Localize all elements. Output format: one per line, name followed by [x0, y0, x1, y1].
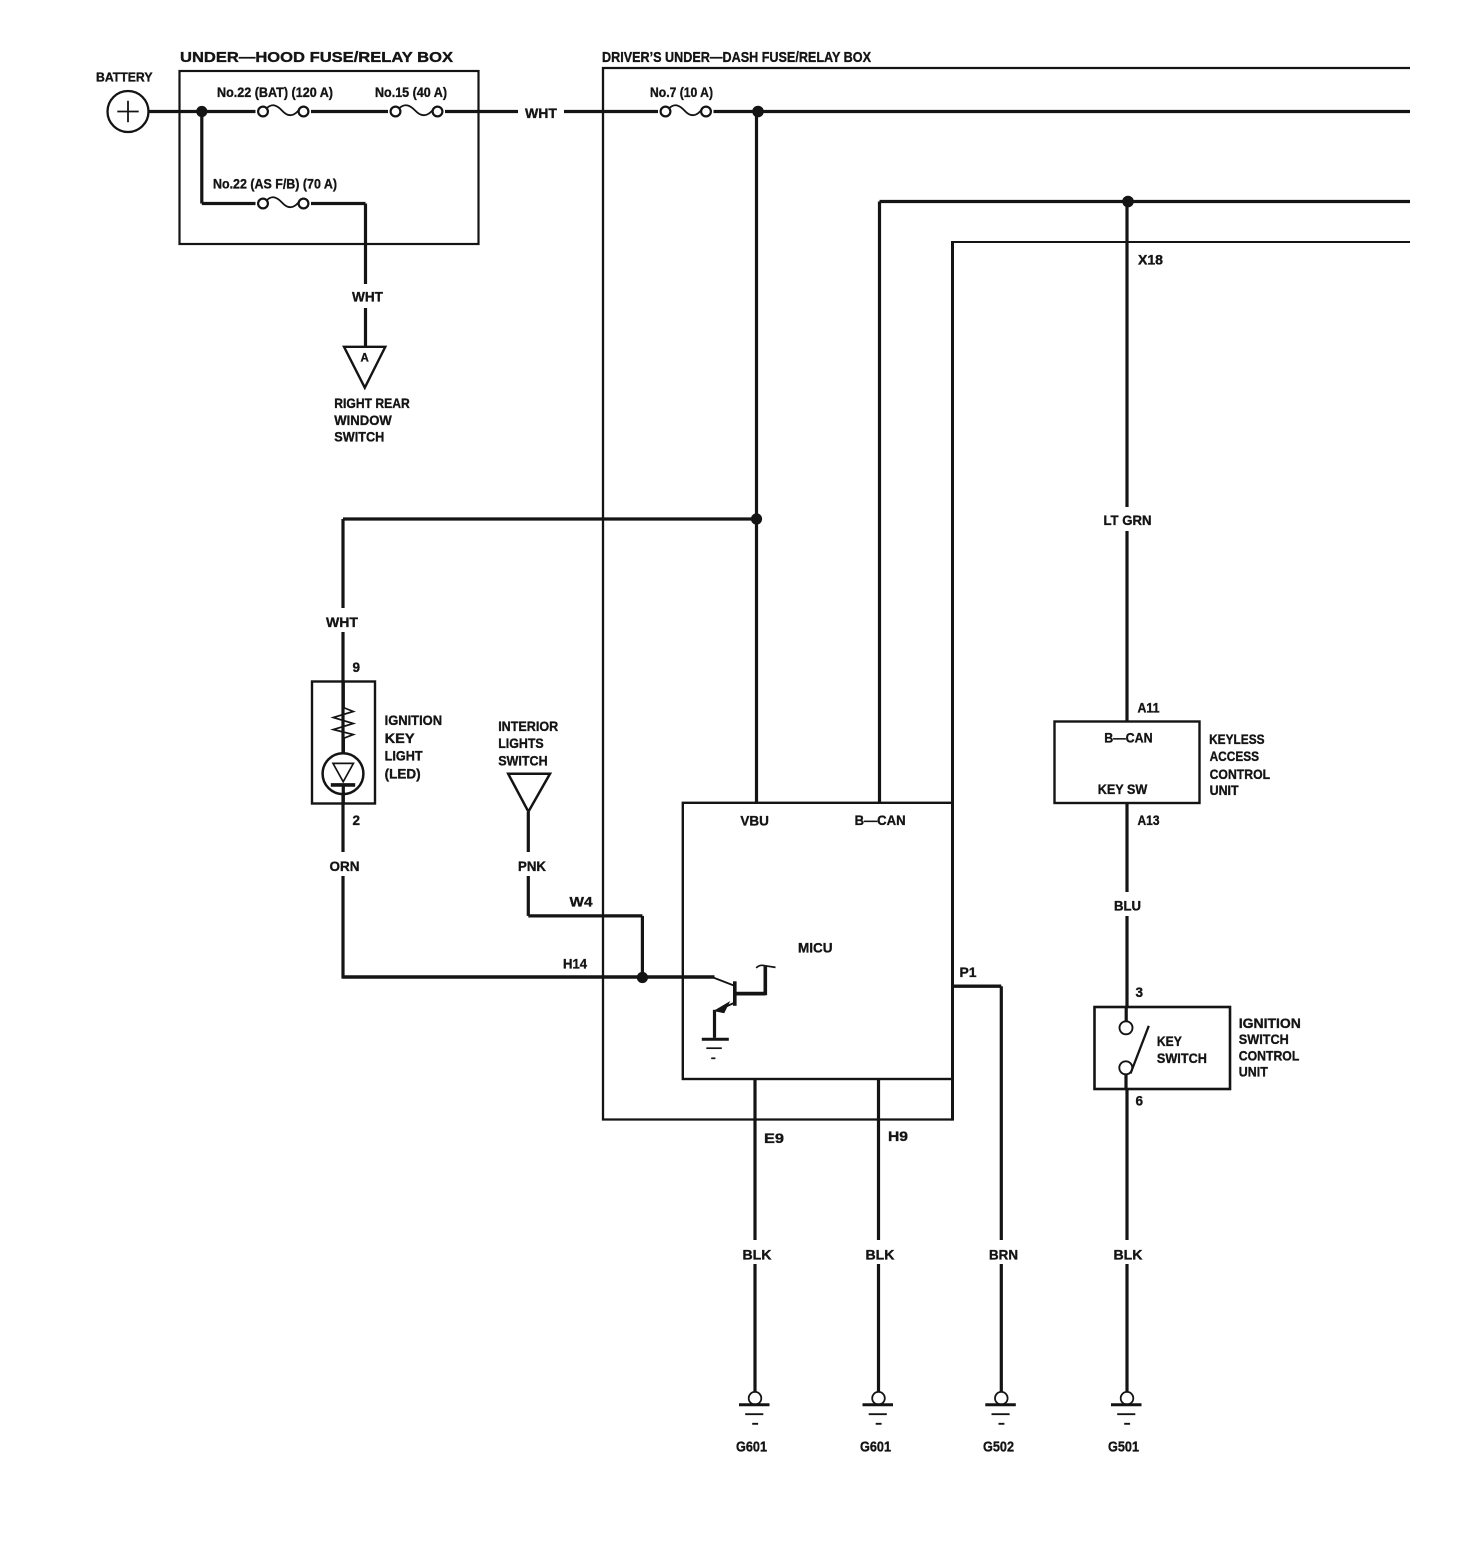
- svg-text:UNDER—HOOD FUSE/RELAY BOX: UNDER—HOOD FUSE/RELAY BOX: [180, 50, 453, 66]
- svg-text:H9: H9: [888, 1128, 908, 1144]
- battery: [96, 70, 153, 133]
- wire WHT down to right rear window switch connector A: [364, 204, 367, 349]
- svg-text:G501: G501: [1108, 1440, 1139, 1456]
- under-hood fuse/relay box outline: [180, 71, 479, 244]
- svg-text:SWITCH: SWITCH: [334, 429, 384, 445]
- wire junction down to No.22 AS F/B fuse: [200, 112, 203, 204]
- svg-text:IGNITION: IGNITION: [385, 712, 443, 728]
- wire BLK H9 to ground G601: [877, 1079, 880, 1392]
- svg-text:WHT: WHT: [525, 105, 557, 121]
- wire battery feed WHT, through fuse boxes to right edge: [149, 110, 1411, 113]
- svg-text:UNIT: UNIT: [1239, 1064, 1268, 1080]
- fuse No.7 10A: [650, 85, 714, 121]
- svg-text:W4: W4: [570, 894, 593, 910]
- ground G601 (H9): [860, 1392, 893, 1456]
- svg-text:B—CAN: B—CAN: [1104, 730, 1153, 746]
- svg-text:SWITCH: SWITCH: [1157, 1050, 1207, 1066]
- label gaps: [518, 103, 564, 120]
- svg-text:G601: G601: [736, 1440, 767, 1456]
- label ignition key light: [385, 712, 443, 781]
- wire BLU A13 to key switch pin 3: [1125, 803, 1128, 1008]
- transistor Q inside MICU (PNP): [714, 965, 776, 1037]
- junction W4 / H14: [637, 972, 648, 983]
- svg-text:BLK: BLK: [866, 1247, 895, 1263]
- wire PNK from interior lights switch: [527, 812, 530, 916]
- svg-text:KEYLESS: KEYLESS: [1209, 731, 1265, 747]
- interior lights switch connector triangle: [508, 774, 550, 812]
- ignition key light (LED) component: [312, 682, 375, 804]
- wire VBU vertical from No.7 fuse junction to MICU: [755, 112, 758, 805]
- svg-text:INTERIOR: INTERIOR: [498, 718, 558, 734]
- svg-text:B—CAN: B—CAN: [855, 812, 906, 828]
- svg-text:(LED): (LED): [385, 765, 421, 781]
- svg-text:DRIVER’S UNDER—DASH FUSE/RELAY: DRIVER’S UNDER—DASH FUSE/RELAY BOX: [602, 50, 871, 66]
- svg-text:BLK: BLK: [743, 1247, 772, 1263]
- svg-text:MICU: MICU: [798, 940, 833, 956]
- wire through No.22 AS F/B fuse: [202, 202, 366, 205]
- transistor emitter ground inside MICU: [702, 1039, 729, 1058]
- svg-text:BRN: BRN: [989, 1247, 1018, 1263]
- svg-text:LIGHT: LIGHT: [385, 748, 423, 764]
- ground G502 (BRN): [983, 1392, 1016, 1456]
- svg-text:VBU: VBU: [740, 813, 769, 829]
- svg-text:6: 6: [1136, 1094, 1144, 1109]
- svg-text:No.22 (BAT) (120 A): No.22 (BAT) (120 A): [217, 85, 333, 100]
- svg-text:CONTROL: CONTROL: [1210, 766, 1271, 782]
- driver's under-dash fuse/relay box outline: [603, 68, 1410, 1120]
- svg-text:G502: G502: [983, 1440, 1014, 1456]
- wire BLK E9 to ground G601: [753, 1079, 756, 1392]
- fuse No.15 40A: [375, 85, 447, 121]
- wire W4 horizontal: [528, 914, 642, 917]
- MICU box: [683, 803, 953, 1079]
- wire B-CAN horizontal to right edge: [880, 200, 1411, 203]
- svg-text:ORN: ORN: [330, 858, 360, 874]
- ignition switch control unit / key switch box: [1095, 1007, 1231, 1089]
- svg-text:BATTERY: BATTERY: [96, 70, 153, 85]
- svg-text:SWITCH: SWITCH: [498, 753, 548, 769]
- label interior lights switch: [498, 718, 558, 769]
- svg-text:KEY SW: KEY SW: [1098, 781, 1148, 797]
- ground G501 (BLK): [1108, 1392, 1142, 1456]
- svg-text:BLK: BLK: [1114, 1247, 1143, 1263]
- svg-text:RIGHT REAR: RIGHT REAR: [334, 395, 410, 411]
- svg-text:No.22 (AS F/B) (70 A): No.22 (AS F/B) (70 A): [213, 177, 337, 192]
- svg-text:ACCESS: ACCESS: [1210, 748, 1260, 764]
- svg-text:CONTROL: CONTROL: [1239, 1048, 1300, 1064]
- svg-text:BLU: BLU: [1114, 898, 1141, 914]
- keyless access control unit box: [1055, 722, 1200, 804]
- fuse No.22 AS F/B 70A: [213, 177, 337, 213]
- ground G601 (E9): [736, 1392, 770, 1456]
- wire VBU branch to ignition key light: [343, 517, 757, 520]
- svg-text:LIGHTS: LIGHTS: [498, 735, 544, 751]
- wire H14 into MICU transistor base: [343, 975, 715, 978]
- svg-text:KEY: KEY: [385, 730, 416, 746]
- svg-text:9: 9: [353, 660, 361, 675]
- svg-text:WHT: WHT: [326, 614, 358, 630]
- svg-text:IGNITION: IGNITION: [1239, 1015, 1301, 1031]
- wire LT GRN keyless access branch: [1125, 202, 1128, 722]
- svg-text:No.7 (10 A): No.7 (10 A): [650, 85, 713, 100]
- svg-text:A13: A13: [1138, 812, 1160, 828]
- wire W4 down to H14 junction: [641, 916, 644, 978]
- svg-text:LT GRN: LT GRN: [1104, 512, 1152, 528]
- svg-text:A11: A11: [1138, 700, 1160, 716]
- svg-text:SWITCH: SWITCH: [1239, 1031, 1289, 1047]
- svg-text:WINDOW: WINDOW: [334, 412, 392, 428]
- fuse No.22 BAT 120A: [217, 85, 333, 121]
- connector A to right rear window switch: [344, 347, 385, 388]
- key switch contacts: [1119, 1007, 1149, 1089]
- svg-text:P1: P1: [960, 964, 977, 980]
- svg-text:3: 3: [1136, 985, 1144, 1000]
- svg-text:E9: E9: [764, 1130, 784, 1146]
- svg-text:H14: H14: [563, 956, 587, 972]
- junction battery feed / AS F/B fuse: [196, 106, 207, 117]
- svg-text:No.15 (40 A): No.15 (40 A): [375, 85, 447, 100]
- wire BRN P1 down to ground G502: [1000, 986, 1003, 1392]
- svg-text:A: A: [360, 353, 368, 365]
- label ignition switch control unit: [1239, 1015, 1301, 1080]
- junction B-CAN wire / keyless branch: [1122, 196, 1134, 208]
- wire BLK key switch pin 6 to ground G501: [1125, 1088, 1128, 1392]
- wire B-CAN vertical to MICU: [878, 202, 881, 805]
- label right rear window switch: [334, 395, 410, 445]
- svg-text:X18: X18: [1138, 252, 1163, 268]
- junction No.7 fuse output / VBU: [752, 106, 764, 118]
- svg-text:UNIT: UNIT: [1210, 782, 1239, 798]
- svg-text:PNK: PNK: [518, 858, 546, 874]
- svg-text:KEY: KEY: [1157, 1033, 1183, 1049]
- junction VBU / ignition key light branch: [751, 513, 762, 524]
- wire WHT/ORN down through ignition key light: [341, 519, 344, 979]
- wire P1 out of MICU: [952, 985, 1002, 988]
- svg-text:WHT: WHT: [352, 289, 383, 305]
- svg-text:G601: G601: [860, 1440, 891, 1456]
- svg-text:2: 2: [353, 813, 361, 828]
